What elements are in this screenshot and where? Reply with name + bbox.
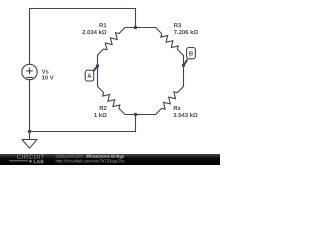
node B letter: [189, 51, 193, 55]
resistor R1: [98, 28, 126, 56]
label R3 name: [174, 23, 181, 27]
wire bottom node drop: [135, 115, 137, 132]
resistor R2: [98, 87, 126, 115]
footer bar: [0, 154, 220, 165]
wire top horizontal: [30, 8, 136, 10]
footer caption url: [56, 159, 125, 163]
label R2 name: [100, 106, 107, 110]
label R3 value 7.206 kOhm: [174, 30, 198, 34]
node B bar: [183, 56, 185, 87]
resistor R3: [156, 28, 184, 56]
label Vs value 10 V: [42, 75, 54, 79]
vs plus sign: [27, 68, 33, 74]
node A flag pointer: [94, 66, 98, 71]
footer logo CIRCUIT: [17, 155, 44, 159]
label Vs name: [42, 70, 49, 74]
junction top node: [134, 26, 137, 29]
footer logo LAB: [34, 160, 44, 163]
ground: [22, 132, 37, 149]
label R1 value 2.034 kOhm: [82, 30, 106, 34]
node A flag box: [85, 70, 94, 81]
label R1 name: [99, 23, 106, 27]
footer logo arrow: [30, 160, 33, 163]
node top bar: [125, 27, 156, 29]
node B flag box: [187, 48, 196, 59]
label Rx value 3.543 kOhm: [173, 113, 197, 117]
node bottom bar: [125, 114, 156, 116]
junction node A: [96, 64, 99, 67]
label Rx name: [174, 106, 181, 110]
voltage source Vs circle: [22, 64, 37, 79]
wire bottom horizontal: [30, 131, 136, 133]
footer caption username: [56, 155, 85, 159]
junction ground: [28, 130, 31, 133]
wire source bottom: [29, 80, 31, 132]
wire top node drop: [135, 9, 137, 28]
junction node B: [182, 64, 185, 67]
footer caption title: [86, 155, 124, 159]
junction bottom node: [134, 113, 137, 116]
resistor Rx: [156, 87, 184, 115]
vs minus sign: [27, 76, 33, 78]
label R2 value 1 kOhm: [94, 113, 106, 117]
footer logo lines: [9, 160, 28, 162]
node A bar: [97, 55, 99, 87]
node A letter: [87, 74, 91, 78]
wire source top: [29, 9, 31, 65]
node B flag pointer: [184, 60, 188, 65]
